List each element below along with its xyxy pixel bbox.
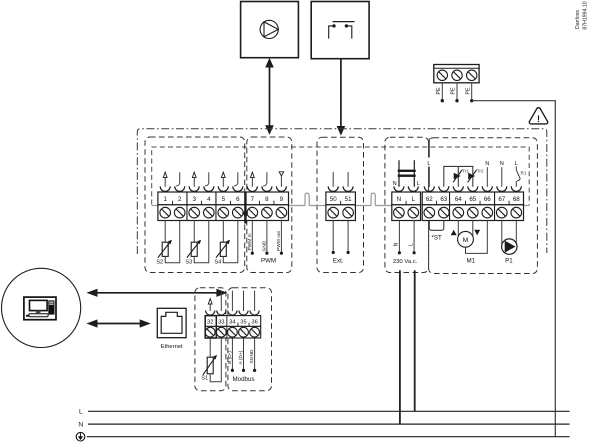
earth rail with symbol	[76, 432, 569, 441]
sensor S4	[214, 221, 237, 266]
PE wires and node dots	[441, 83, 474, 103]
svg-text:66: 66	[484, 196, 491, 203]
sensor S2	[156, 221, 179, 266]
svg-text:N: N	[485, 161, 489, 167]
computer icon	[24, 297, 56, 320]
svg-text:8: 8	[265, 196, 269, 203]
controller edge line (gray) with hops	[152, 193, 530, 205]
arrow above 32	[209, 303, 211, 311]
pump P1	[502, 221, 517, 255]
cable group box sensors S2-S4	[145, 137, 245, 273]
mains double-insulation symbol above N L	[398, 160, 416, 187]
hooks 62-68	[424, 186, 521, 191]
PWM signal labels	[247, 230, 282, 251]
svg-text:Ethernet: Ethernet	[161, 344, 183, 350]
PE terminal block	[434, 65, 479, 83]
outer enclosure dash-dot border	[137, 129, 547, 254]
Ethernet jack	[157, 308, 186, 337]
L wire above terminal 62	[426, 138, 432, 187]
sensor S3	[185, 221, 208, 266]
triac Tr2	[468, 169, 484, 183]
relay contact R1 above 68	[515, 161, 527, 187]
svg-text:S4: S4	[214, 260, 221, 266]
mains supply lines down to rails	[400, 270, 415, 424]
svg-text:P1: P1	[505, 257, 513, 264]
svg-text:63: 63	[440, 196, 447, 203]
terminal numbers 32-36	[207, 320, 258, 326]
svg-text:GND: GND	[262, 240, 268, 251]
svg-text:6: 6	[236, 196, 240, 203]
svg-text:PE: PE	[436, 87, 442, 95]
svg-text:PWM: PWM	[261, 257, 276, 264]
terminal strip 32-36	[205, 316, 261, 338]
svg-text:SGND: SGND	[249, 349, 255, 363]
svg-text:L: L	[79, 409, 83, 416]
N stub above 66	[485, 161, 489, 187]
svg-text:N: N	[394, 242, 400, 246]
screws 50 51	[328, 207, 354, 218]
svg-text:Tr2: Tr2	[477, 169, 484, 174]
wire stubs above 50 51	[333, 172, 348, 187]
terminal numbers 1-9	[163, 196, 283, 203]
terminal strip 62-68	[422, 192, 523, 221]
svg-text:R1: R1	[521, 170, 527, 175]
screws strip 1-9	[160, 207, 287, 218]
motor M1	[458, 221, 488, 254]
terminal strip 50-51 (Ext)	[326, 192, 356, 221]
N L labels at symbol	[393, 181, 420, 187]
terminal strip 1-9	[158, 192, 289, 221]
svg-text:M1: M1	[466, 257, 475, 264]
rotated N L labels on mains wires	[394, 242, 415, 246]
partition bar between 6 and 7	[243, 192, 249, 224]
warning triangle	[529, 108, 548, 124]
svg-text:S2: S2	[156, 260, 163, 266]
svg-text:PE: PE	[465, 87, 471, 95]
external switch box (top)	[311, 2, 369, 59]
Modbus signal labels	[227, 349, 255, 364]
svg-text:S3: S3	[185, 260, 192, 266]
hooks 50 51	[328, 186, 353, 191]
svg-text:87H1994.10: 87H1994.10	[582, 1, 588, 29]
SCADA / PC hub circle	[2, 268, 81, 347]
svg-text:L: L	[412, 196, 416, 203]
double arrow hub to Modbus	[86, 289, 227, 297]
pump symbol in top box	[260, 20, 278, 38]
svg-text:5: 5	[222, 196, 226, 203]
svg-text:68: 68	[513, 196, 520, 203]
M1 open arrow up	[451, 230, 457, 236]
svg-text:PWM In: PWM In	[247, 233, 253, 250]
arrow switch box to controller	[337, 59, 346, 136]
hooks N L	[394, 186, 418, 191]
triac Tr1	[453, 169, 469, 183]
svg-text:Ext.: Ext.	[333, 257, 344, 264]
svg-text:Danfoss: Danfoss	[575, 10, 581, 29]
L rail	[79, 409, 570, 416]
ST jumper loop 62-63	[429, 221, 444, 231]
N stub above 67	[500, 161, 504, 187]
Ext wires down with dots	[332, 221, 350, 255]
M1 open arrow down	[474, 230, 480, 236]
PE labels	[436, 87, 471, 95]
svg-text:51: 51	[345, 196, 352, 203]
cable group box PWM	[247, 137, 292, 273]
svg-text:50: 50	[330, 196, 337, 203]
terminal letters N L	[397, 196, 416, 203]
hooks 32-36	[206, 311, 260, 316]
svg-text:L: L	[408, 243, 414, 246]
svg-text:Modbus: Modbus	[232, 376, 254, 383]
terminal strip N L (mains input)	[392, 192, 421, 221]
N rail	[78, 422, 569, 429]
PE wire to earth rail	[472, 101, 556, 437]
svg-text:Tr1: Tr1	[462, 169, 469, 174]
svg-text:L: L	[515, 161, 518, 167]
svg-text:32: 32	[207, 320, 213, 326]
svg-text:PWM out: PWM out	[276, 230, 282, 250]
output arrow terminal 9	[279, 172, 284, 176]
svg-text:2: 2	[178, 196, 182, 203]
svg-text:B (D-): B (D-)	[227, 351, 233, 364]
svg-text:4: 4	[207, 196, 211, 203]
svg-text:L: L	[427, 161, 430, 167]
svg-text:N: N	[78, 422, 83, 429]
switch contact symbol	[329, 22, 355, 39]
svg-text:1: 1	[163, 196, 167, 203]
svg-text:36: 36	[251, 320, 257, 326]
pump unit box (top)	[241, 2, 299, 58]
svg-text:33: 33	[218, 320, 224, 326]
svg-text:62: 62	[426, 196, 433, 203]
svg-text:35: 35	[240, 320, 246, 326]
svg-text:67: 67	[498, 196, 505, 203]
stubs above 33-36	[221, 291, 254, 311]
svg-text:PE: PE	[451, 87, 457, 95]
inner controller dashed border	[152, 147, 530, 205]
svg-text:3: 3	[192, 196, 196, 203]
cable group box Ext	[317, 137, 364, 272]
sensor S1	[201, 338, 221, 382]
double arrow hub to Ethernet	[86, 319, 150, 327]
screws N L	[394, 207, 419, 218]
Modbus wires 34-36	[231, 338, 256, 372]
screws 32-36	[205, 327, 259, 337]
cable group box mains 250V	[385, 137, 429, 272]
svg-text:34: 34	[229, 320, 236, 326]
svg-text:65: 65	[469, 196, 476, 203]
svg-text:N: N	[393, 181, 397, 187]
svg-text:64: 64	[455, 196, 462, 203]
svg-text:230 Va.c.: 230 Va.c.	[393, 259, 418, 265]
signal direction arrows terminals 1-8	[163, 172, 267, 187]
mains wires down with dots	[398, 221, 416, 255]
svg-text:S1: S1	[201, 376, 208, 382]
Danfoss doc number (rotated)	[575, 1, 588, 29]
svg-text:M: M	[463, 237, 469, 244]
PWM wires terminals 7-9	[251, 221, 283, 255]
cable group box Modbus	[228, 288, 272, 391]
svg-text:A (D+): A (D+)	[238, 350, 244, 364]
svg-text:N: N	[397, 196, 401, 203]
svg-text:N: N	[500, 161, 504, 167]
terminal numbers 62-68	[426, 196, 520, 203]
svg-text:!: !	[537, 114, 540, 124]
svg-text:*ST: *ST	[431, 234, 442, 241]
svg-text:L: L	[417, 181, 420, 187]
double-headed arrow pump box to controller	[265, 58, 274, 135]
wire hooks strip 1-9	[160, 186, 286, 191]
cable group box S1	[195, 288, 226, 391]
screws 62-68	[424, 207, 522, 218]
terminal numbers 50 51	[330, 196, 352, 203]
svg-text:9: 9	[280, 196, 284, 203]
triac bracket 63-65	[444, 166, 473, 186]
cable group box outputs 62-68	[429, 138, 538, 274]
svg-text:7: 7	[251, 196, 255, 203]
